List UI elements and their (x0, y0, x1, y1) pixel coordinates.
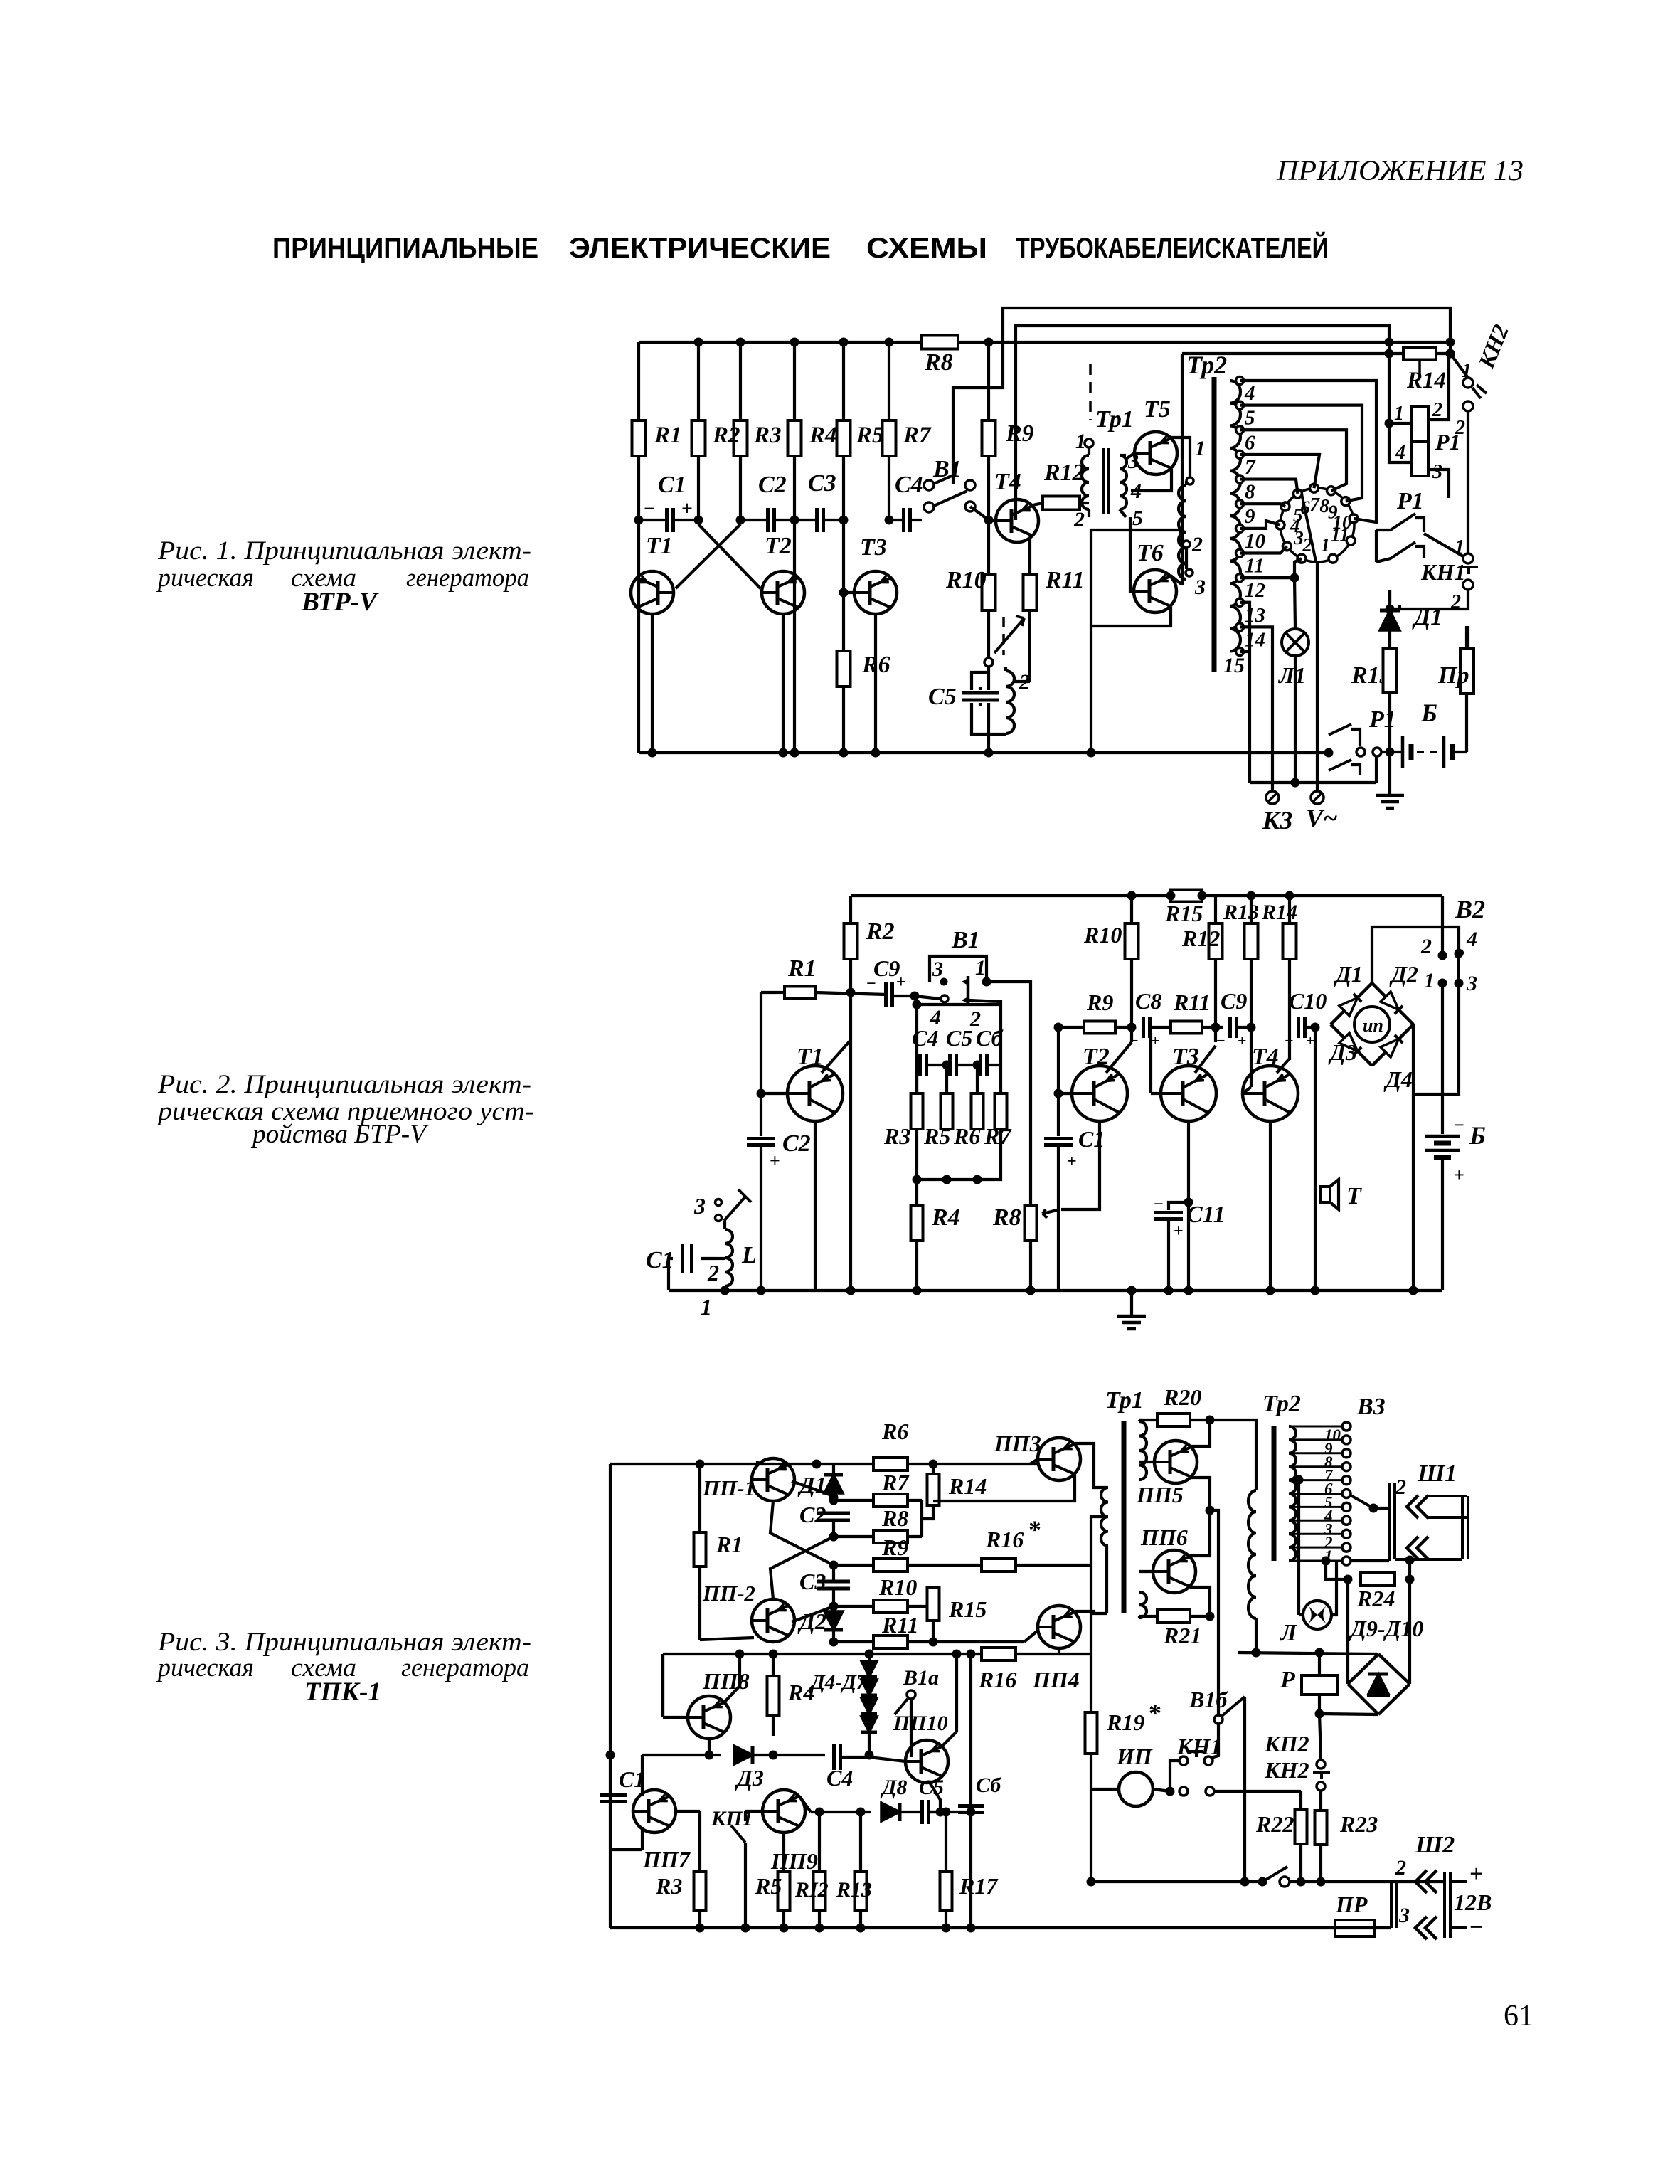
svg-text:Л1: Л1 (1277, 662, 1306, 688)
Tp1 center tap (1091, 1517, 1108, 1712)
svg-text:Д1: Д1 (1334, 961, 1363, 987)
wire bridge right to B2 3 (1413, 987, 1459, 1094)
svg-text:ПП-2: ПП-2 (702, 1581, 755, 1606)
svg-text:R11: R11 (881, 1612, 919, 1638)
wire Tp2 primary feed (1091, 530, 1181, 753)
wire T2 base (1058, 1092, 1072, 1095)
svg-text:ПП4: ПП4 (1032, 1667, 1080, 1692)
capacitor C9b (1228, 1017, 1232, 1038)
wire T2 base col C1 (1057, 1027, 1060, 1136)
wire bridge right down (1412, 1024, 1415, 1290)
PP-1 base wire (792, 1481, 834, 1496)
svg-text:Рис. 2. Принципиальная элект-: Рис. 2. Принципиальная элект- (157, 1070, 531, 1099)
svg-text:*: * (1028, 1515, 1041, 1544)
resistor R20 (1157, 1414, 1190, 1426)
svg-text:В3: В3 (1356, 1394, 1386, 1420)
transistor PP-1 (752, 1458, 794, 1501)
svg-text:R16: R16 (985, 1527, 1024, 1552)
resistor R1 (632, 420, 646, 456)
wire PP7 emitter (641, 1827, 644, 1850)
fig2 bottom bus wire (669, 1289, 1442, 1292)
PP3 base wire (1030, 1459, 1038, 1464)
emitter wire T1 (651, 614, 654, 753)
svg-text:С4: С4 (912, 1025, 938, 1051)
diode D1 fig3 (812, 1460, 822, 1469)
wire B3 bottom rail (1351, 1559, 1389, 1562)
wire col R3 (739, 342, 742, 520)
resistor R13 (1383, 649, 1397, 692)
resistor R14 fig2 (1283, 923, 1297, 959)
capacitor C2 (766, 508, 770, 532)
capacitor C4 fig2 (918, 1054, 922, 1076)
Tp2 core bar (1212, 377, 1217, 672)
PP8 base wire (663, 1716, 688, 1719)
svg-text:5: 5 (1132, 507, 1143, 530)
svg-text:Д9-Д10: Д9-Д10 (1349, 1616, 1423, 1641)
svg-text:3: 3 (1432, 461, 1442, 483)
lamp L fig3 (1303, 1601, 1331, 1629)
wire B2 to top bus (1441, 896, 1444, 955)
Tp2 primary fig3 (1248, 1490, 1256, 1618)
svg-text:RI2: RI2 (794, 1878, 829, 1902)
PP5 emitter (1191, 1478, 1210, 1510)
svg-text:R12: R12 (1181, 926, 1220, 951)
resistor R9 (982, 420, 996, 456)
wire T4 emitter (1269, 1121, 1272, 1290)
transistor PP9 (762, 1790, 805, 1833)
resistor R23 (1315, 1811, 1327, 1845)
capacitor C4 fig3 (832, 1744, 836, 1770)
svg-text:рическая: рическая (156, 1653, 254, 1682)
rotary switch S (1280, 488, 1354, 562)
svg-text:R15: R15 (948, 1596, 987, 1622)
svg-text:ПП7: ПП7 (642, 1847, 691, 1872)
fig1 top nest line A (953, 308, 1450, 484)
svg-text:7: 7 (1245, 456, 1256, 479)
fig2 cage box wires (917, 1004, 1001, 1180)
wire col R10 (1130, 896, 1133, 923)
svg-text:R6: R6 (881, 1419, 908, 1444)
fig3 top wire (610, 1463, 1038, 1465)
svg-text:Д3: Д3 (735, 1765, 764, 1791)
resistor R14 fig3 (932, 1464, 935, 1474)
svg-text:R11: R11 (1173, 990, 1211, 1015)
wire coil to bus (723, 1286, 726, 1290)
wire col R9 R10 (987, 342, 990, 420)
transistor T3 (854, 571, 897, 614)
svg-text:12В: 12В (1454, 1889, 1492, 1915)
svg-text:С3: С3 (799, 1569, 826, 1594)
svg-text:ройства БТР-V: ройства БТР-V (250, 1120, 429, 1149)
resistor R13 fig2 (1245, 923, 1258, 959)
relay P fig3 (1302, 1675, 1337, 1695)
svg-text:1: 1 (1075, 430, 1086, 453)
Tp1 core (1102, 448, 1105, 514)
resistor R2 (844, 923, 858, 959)
svg-text:Т1: Т1 (646, 533, 673, 559)
svg-text:Р1: Р1 (1396, 488, 1424, 514)
transistor T1 fig2 (787, 1066, 843, 1121)
resistor R10 fig3 (873, 1600, 908, 1613)
resistor R6 (837, 651, 851, 687)
svg-text:R1: R1 (654, 423, 682, 448)
svg-text:ВТР-V: ВТР-V (301, 588, 379, 617)
svg-text:13: 13 (1245, 604, 1265, 627)
resistor R3 (734, 420, 748, 456)
resistor R13 fig3 (859, 1812, 862, 1872)
svg-text:В1б: В1б (1189, 1687, 1228, 1712)
svg-text:61: 61 (1504, 2000, 1533, 2032)
svg-text:+: + (1067, 1152, 1077, 1171)
fuse PR (1335, 1920, 1375, 1936)
resistor R12 fig3 (818, 1812, 821, 1872)
resistor R6 fig3 (873, 1458, 908, 1470)
svg-text:*: * (1149, 1699, 1161, 1727)
wire T3 collector (1195, 1046, 1216, 1073)
svg-text:R1: R1 (716, 1532, 743, 1557)
svg-text:+: + (1469, 1861, 1483, 1887)
wire bridge top to B2 (1372, 927, 1459, 983)
svg-text:−: − (1216, 1032, 1226, 1049)
cage bottom dots (942, 1175, 952, 1184)
wire C1 col (606, 1751, 615, 1760)
wire tank to bottom bus (987, 734, 990, 753)
tank coil (1006, 671, 1014, 733)
svg-text:15: 15 (1223, 654, 1245, 677)
wire R1 row (775, 991, 785, 994)
fig3 bottom bus (610, 1926, 1356, 1929)
resistor R24 (1361, 1573, 1395, 1586)
wire KN2 down (1467, 411, 1469, 553)
svg-text:R5: R5 (755, 1873, 782, 1899)
svg-text:С1: С1 (658, 472, 686, 498)
svg-text:Д4-Д7: Д4-Д7 (809, 1671, 868, 1694)
svg-text:ПП-1: ПП-1 (702, 1475, 755, 1500)
wire right column fig1 (1465, 694, 1468, 752)
svg-text:С1: С1 (646, 1247, 674, 1273)
wire bottom bus to relay contact (1324, 748, 1334, 758)
svg-text:R21: R21 (1163, 1623, 1201, 1648)
resistor R9 fig2 (1084, 1022, 1115, 1034)
tank circuit C5 with coil (984, 658, 993, 667)
wire B2 1 down to battery (1441, 983, 1444, 1134)
svg-text:R14: R14 (948, 1473, 987, 1499)
capacitor C4 (902, 508, 905, 532)
wire T4 base fig2 (1250, 1027, 1253, 1087)
svg-text:Т4: Т4 (1252, 1044, 1279, 1070)
svg-text:Сб: Сб (976, 1774, 1001, 1797)
svg-text:R4: R4 (931, 1204, 960, 1231)
wire T4 emitter to R11 (1028, 539, 1031, 575)
svg-text:С4: С4 (895, 472, 923, 498)
Tp1 primary coil (1082, 455, 1089, 509)
svg-text:Т3: Т3 (860, 534, 887, 561)
resistor R10 (1125, 923, 1139, 959)
svg-text:ПП10: ПП10 (893, 1712, 948, 1735)
svg-text:R9: R9 (1086, 990, 1113, 1015)
svg-text:Ш2: Ш2 (1415, 1832, 1455, 1858)
Tp1 right winding upper (1139, 1421, 1147, 1480)
resistor R16star (982, 1559, 1016, 1571)
svg-text:R5: R5 (923, 1123, 950, 1149)
wire Tp1 mid to Tp2 (1210, 1420, 1256, 1490)
diode D8 (881, 1803, 900, 1821)
svg-text:С10: С10 (1289, 988, 1327, 1014)
PP9 base (745, 1810, 762, 1813)
svg-text:Тр1: Тр1 (1095, 406, 1134, 433)
svg-text:+: + (896, 973, 906, 992)
svg-text:−: − (1154, 1195, 1164, 1214)
svg-text:+: + (770, 1150, 780, 1171)
wire IP leads (1091, 1788, 1119, 1791)
fig1 lower return wire (1250, 781, 1376, 784)
fig1 bottom bus wire (639, 751, 1329, 754)
svg-text:+: + (1306, 1032, 1315, 1049)
resistor R7 (883, 420, 896, 456)
resistor R7 fig3 (873, 1494, 908, 1507)
svg-text:ТПК-1: ТПК-1 (304, 1677, 381, 1707)
contact pair lower (1179, 1787, 1188, 1796)
svg-text:2: 2 (1191, 533, 1203, 556)
svg-text:11: 11 (1331, 524, 1349, 546)
capacitor C10 (1297, 1017, 1300, 1038)
svg-text:ПРИНЦИПИАЛЬНЫЕ: ПРИНЦИПИАЛЬНЫЕ (272, 233, 538, 264)
svg-text:14: 14 (1245, 628, 1265, 651)
wire col R2 (697, 342, 700, 520)
resistor R7 fig2 (995, 1093, 1007, 1129)
capacitor C8 (1142, 1017, 1145, 1038)
wire T5 emitter (1131, 469, 1171, 491)
svg-text:1: 1 (975, 956, 986, 980)
svg-text:1: 1 (1394, 403, 1404, 425)
svg-text:ИП: ИП (1116, 1744, 1153, 1769)
svg-text:R20: R20 (1163, 1384, 1201, 1410)
wire bridge legs fig3 (1346, 1579, 1349, 1684)
svg-text:R14: R14 (1406, 368, 1446, 393)
wire T6 collector (1171, 576, 1182, 585)
wire col R7 (888, 342, 890, 520)
capacitor C2 fig3 (817, 1512, 850, 1515)
wire T2 collector (1106, 1042, 1132, 1073)
wire T4 base (989, 519, 996, 522)
capacitor C3 fig3 (832, 1565, 835, 1581)
svg-text:R4: R4 (809, 423, 837, 448)
svg-text:КН1: КН1 (1420, 559, 1466, 585)
svg-text:Т6: Т6 (1137, 540, 1164, 566)
svg-text:+: + (1454, 1165, 1464, 1185)
svg-text:С2: С2 (782, 1130, 811, 1157)
resistor R16b (982, 1648, 1016, 1660)
diode bridge fig2 (1331, 983, 1372, 1024)
svg-text:R15: R15 (1164, 901, 1203, 926)
wire col R12 (1214, 896, 1217, 923)
resistor R4 fig2 (915, 1180, 918, 1205)
svg-text:4: 4 (1395, 442, 1405, 464)
svg-text:2: 2 (1073, 508, 1085, 531)
Tp1 left winding (1101, 1488, 1108, 1546)
svg-text:генератора: генератора (401, 1653, 529, 1682)
svg-text:R13: R13 (1223, 901, 1259, 924)
svg-text:R13: R13 (836, 1878, 872, 1902)
PP-1 emitter top (756, 1461, 759, 1464)
wire T1 collector (822, 1040, 851, 1073)
Tp2 primary winding (1179, 485, 1186, 548)
transistor T6 (1134, 570, 1176, 613)
svg-text:R9: R9 (1005, 420, 1034, 447)
Tp2 secondary fig3 (1289, 1426, 1296, 1561)
PP6 base (1139, 1570, 1153, 1573)
svg-text:Ш1: Ш1 (1417, 1461, 1457, 1487)
resistor R10 (982, 575, 996, 610)
wire T3 base (1151, 1092, 1161, 1095)
resistor R4 fig3 (772, 1654, 775, 1676)
diode D3 (709, 1754, 721, 1756)
svg-text:2: 2 (1395, 1856, 1406, 1880)
PP-2 base wire (792, 1606, 834, 1622)
capacitor C1 fig3 (600, 1793, 627, 1797)
svg-text:−: − (644, 498, 655, 520)
transistor PP-2 (752, 1599, 794, 1642)
resistor R19 (1085, 1712, 1097, 1754)
svg-text:Р1: Р1 (1435, 429, 1461, 455)
svg-text:R7: R7 (881, 1470, 910, 1495)
fig1 top nest line B (1016, 326, 1389, 520)
PP9 collector (799, 1796, 811, 1812)
capacitor C6 fig2 (979, 1054, 982, 1076)
B3 wiper to Sh1 (1351, 1495, 1373, 1508)
transistor PP3 (1038, 1438, 1080, 1480)
speaker T fig2 (1320, 1187, 1330, 1202)
wire T1 emitter (814, 1121, 817, 1290)
PP3 collector to Tp1 (1075, 1443, 1107, 1488)
svg-text:−: − (1129, 1032, 1139, 1049)
svg-text:К3: К3 (1262, 806, 1292, 834)
svg-text:3: 3 (1194, 576, 1206, 599)
svg-text:Т2: Т2 (765, 533, 792, 559)
resistor R22 (1295, 1810, 1307, 1844)
PP7 base wire (676, 1810, 700, 1813)
svg-text:С8: С8 (1135, 988, 1161, 1014)
transistor PP10 (905, 1740, 948, 1783)
terminal K3 (1266, 791, 1279, 804)
svg-text:12: 12 (1245, 579, 1265, 602)
PP8 collector up (725, 1686, 740, 1702)
svg-text:V~: V~ (1306, 804, 1338, 832)
svg-text:10: 10 (1245, 530, 1265, 553)
svg-text:ип: ип (1363, 1015, 1383, 1036)
wire T1 base (761, 1092, 787, 1095)
fig1 top bus wire (639, 341, 923, 344)
svg-text:КН2: КН2 (1473, 321, 1514, 372)
wire T4 collector R12 (1033, 503, 1043, 505)
wire KP1 col (744, 1850, 747, 1928)
svg-text:Тр1: Тр1 (1105, 1387, 1144, 1414)
svg-text:С4: С4 (826, 1765, 853, 1791)
wire col R4 (793, 342, 796, 753)
wire row 2467 (773, 1754, 825, 1756)
svg-text:С2: С2 (799, 1502, 826, 1527)
resistor R1 (785, 987, 816, 999)
fig3 mid bus right (1059, 1653, 1091, 1655)
emitter wire T3 (874, 614, 877, 753)
svg-text:R5: R5 (856, 423, 884, 448)
svg-text:1: 1 (1195, 437, 1206, 460)
resistor R3 fig3 (698, 1811, 701, 1872)
svg-text:Пр: Пр (1437, 662, 1469, 689)
svg-text:Б: Б (1420, 699, 1437, 727)
resistor R2 (692, 420, 706, 456)
PP6 collector (1190, 1587, 1210, 1616)
svg-text:ТРУБОКАБЕЛЕИСКАТЕЛЕЙ: ТРУБОКАБЕЛЕИСКАТЕЛЕЙ (1016, 231, 1329, 264)
svg-text:ПП5: ПП5 (1136, 1482, 1184, 1507)
svg-text:R23: R23 (1339, 1811, 1378, 1837)
svg-text:R1: R1 (787, 955, 817, 982)
wire bridge bottom (1319, 1714, 1378, 1714)
svg-text:С9: С9 (1221, 988, 1247, 1014)
capacitor C6 fig3 (969, 1654, 972, 1806)
svg-text:−: − (1285, 1032, 1294, 1049)
capacitor C1 fig2 (715, 1257, 725, 1260)
base wire T3 (844, 591, 854, 594)
wire R24 right up to Sh1 (1408, 1561, 1411, 1579)
svg-text:−: − (1454, 1115, 1464, 1135)
switch KN1 (1463, 553, 1473, 563)
svg-text:+: + (1238, 1032, 1247, 1049)
ground fig2 (1130, 1290, 1133, 1316)
svg-text:С5: С5 (946, 1025, 972, 1051)
resistor R8 (921, 336, 958, 349)
emitter wire T2 (782, 614, 785, 753)
wire col R5 R6 (842, 342, 845, 753)
svg-text:R19: R19 (1106, 1709, 1144, 1735)
svg-text:В2: В2 (1455, 895, 1485, 923)
wire T2 emitter (1061, 1121, 1100, 1209)
svg-text:R8: R8 (992, 1204, 1021, 1231)
svg-text:рическая: рическая (156, 563, 254, 593)
Tp2 secondary winding (1230, 381, 1240, 651)
svg-text:R7: R7 (984, 1123, 1012, 1149)
fig2 top bus wire (851, 894, 1442, 897)
svg-text:7: 7 (1309, 494, 1320, 515)
wire PP10 collector (942, 1732, 957, 1746)
svg-text:5: 5 (1245, 407, 1255, 430)
wire col R14 fig2 (1288, 896, 1291, 923)
wire mid bus left end (661, 1654, 664, 1717)
ground fig1 (1388, 752, 1391, 795)
svg-text:С5: С5 (919, 1776, 944, 1799)
wire row 2547 (811, 1811, 871, 1813)
svg-text:9: 9 (1245, 505, 1255, 528)
svg-text:Т4: Т4 (994, 469, 1021, 495)
svg-text:1: 1 (1424, 969, 1435, 992)
rotary switch wiper (1302, 494, 1316, 561)
wire PP7 collector (641, 1755, 644, 1796)
svg-text:R22: R22 (1255, 1811, 1294, 1837)
svg-text:Рис. 1. Принципиальная элект-: Рис. 1. Принципиальная элект- (157, 536, 531, 566)
wire T6 base (1130, 517, 1134, 591)
svg-text:R8: R8 (881, 1505, 908, 1531)
svg-text:−: − (1469, 1914, 1483, 1941)
svg-text:КП2: КП2 (1264, 1731, 1309, 1756)
svg-text:В1: В1 (951, 927, 980, 953)
wire T5 collector (1171, 438, 1190, 477)
svg-text:Р: Р (1280, 1667, 1295, 1693)
svg-text:ПП3: ПП3 (994, 1431, 1041, 1456)
PP4 collector to Tp1 (1075, 1611, 1107, 1613)
svg-text:8: 8 (1245, 481, 1255, 504)
svg-text:3: 3 (1398, 1904, 1410, 1927)
svg-text:Д4: Д4 (1383, 1066, 1413, 1092)
